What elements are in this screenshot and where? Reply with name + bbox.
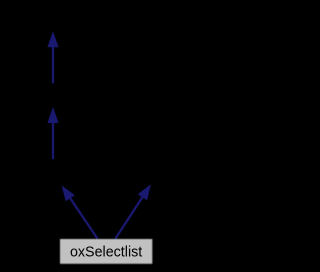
svg-text:oxSelectlist: oxSelectlist — [70, 245, 142, 261]
arrowhead: left parent arrow — [62, 185, 75, 201]
wire: inheritance edge shaft, right parent arrow — [115, 197, 142, 239]
wire: inheritance edge shaft, middle ancestor arrow — [52, 121, 54, 159]
wire: inheritance edge shaft, left parent arrow — [70, 198, 97, 239]
arrowhead: middle ancestor arrow — [47, 107, 58, 123]
wire: inheritance edge shaft, top ancestor arrow — [52, 46, 54, 84]
node oxSelectlist: class box — [60, 239, 152, 264]
arrowhead: right parent arrow — [138, 184, 151, 200]
arrowhead: top ancestor arrow — [47, 31, 58, 47]
